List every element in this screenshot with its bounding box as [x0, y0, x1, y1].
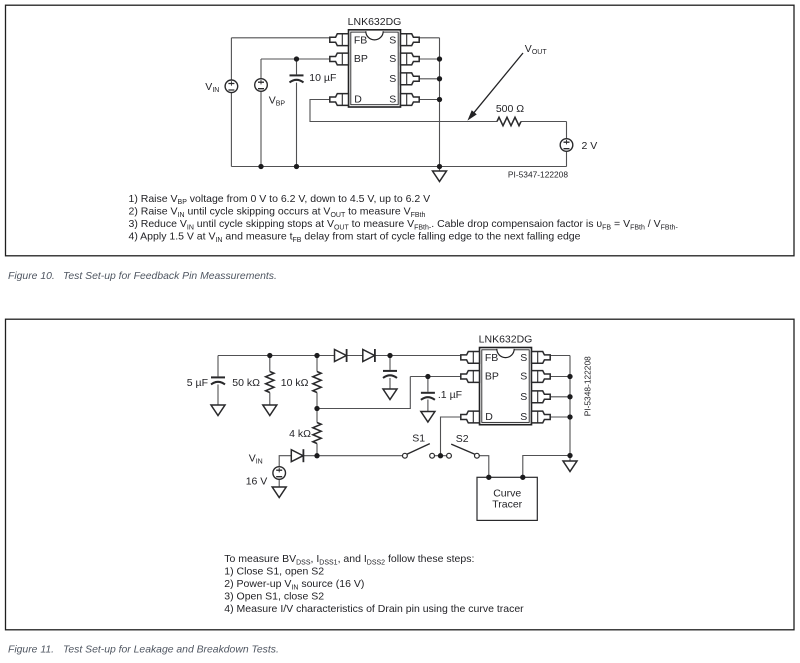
diode D1 [335, 349, 347, 362]
figure 11 border frame [6, 319, 795, 630]
wire 2V source lower lead [566, 151, 568, 166]
svg-text:.1 µF: .1 µF [438, 389, 462, 401]
package notch fig11 [497, 349, 514, 358]
svg-text:BP: BP [354, 53, 368, 65]
svg-text:BP: BP [485, 371, 499, 383]
wire top rail segment 3 [375, 355, 461, 357]
pin BP left fig11 [461, 371, 480, 383]
diode D2 [363, 349, 375, 362]
resistor 4k [313, 423, 321, 444]
pin S right 2 fig11 [532, 371, 551, 383]
wire 01uF top lead [427, 377, 429, 392]
svg-text:S: S [520, 371, 527, 383]
wire output line right of resistor [521, 121, 567, 123]
junction S rail pin2 fig11 [567, 374, 572, 379]
junction S rail bottom fig11 [567, 453, 572, 458]
svg-text:10 kΩ: 10 kΩ [281, 377, 309, 389]
wire 5uF top lead [217, 356, 219, 377]
junction D-switch node [438, 453, 443, 458]
svg-text:Figure 11.: Figure 11. [8, 645, 54, 656]
capacitor C1 10uF [290, 75, 304, 82]
svg-text:LNK632DG: LNK632DG [348, 16, 402, 28]
junction BP 01uF [425, 374, 430, 379]
wire diode to S1 [303, 455, 402, 457]
wire cap3 bottom lead [389, 378, 391, 389]
svg-text:2) Power-up VIN source (16 V): 2) Power-up VIN source (16 V) [224, 578, 364, 591]
switch S1 [403, 444, 435, 459]
wire S pin 3 to rail fig11 [550, 396, 570, 398]
node VOUT arrow [468, 53, 523, 120]
resistor R1 500 ohm [497, 117, 521, 125]
wire 10uF bottom lead [296, 83, 298, 167]
svg-text:VIN: VIN [249, 452, 263, 465]
wire 01uF bottom lead [427, 400, 429, 412]
wire 4k bottom lead [316, 444, 318, 456]
svg-text:VBP: VBP [269, 94, 286, 107]
pin S right 1 fig11 [532, 352, 551, 364]
svg-text:S1: S1 [412, 433, 425, 445]
wire curve tracer to ground rail [523, 456, 570, 478]
svg-text:4) Apply 1.5 V at VIN and meas: 4) Apply 1.5 V at VIN and measure tFB de… [129, 231, 581, 244]
pin D left fig11 [461, 411, 480, 423]
ground C3 [383, 389, 397, 400]
wire S1 to S2 common [434, 455, 447, 457]
wire BP drop to 10k node [317, 377, 410, 409]
wire BP rail [410, 376, 461, 378]
wire S pin 4 to rail fig11 [550, 416, 570, 418]
diode D3 [291, 449, 303, 462]
wire BP rail VBP to BP pin [261, 58, 330, 60]
wire ground stem [439, 167, 441, 172]
svg-text:S: S [520, 411, 527, 423]
resistor 50k [266, 372, 274, 393]
wire S pin 1 to rail [420, 37, 440, 39]
junction S rail bottom [437, 164, 442, 169]
svg-text:4 kΩ: 4 kΩ [289, 428, 311, 440]
source VBP [255, 79, 268, 92]
junction 4k VIN rail [314, 453, 319, 458]
svg-text:S: S [389, 94, 396, 106]
pin D left 4 [330, 94, 349, 106]
figure 10 border frame [6, 5, 795, 256]
svg-text:3) Reduce VIN until cycle skip: 3) Reduce VIN until cycle skipping stops… [129, 218, 679, 231]
ground 01uF [421, 412, 435, 423]
wire VIN vertical upper [230, 38, 232, 80]
pin S right 4 fig11 [532, 411, 551, 423]
wire D pin to switch node [441, 417, 461, 456]
wire VIN source top lead [279, 456, 291, 467]
wire S pin 2 to rail fig11 [550, 376, 570, 378]
junction S rail pin3 [437, 76, 442, 81]
svg-text:To measure BVDSS, IDSS1, and I: To measure BVDSS, IDSS1, and IDSS2 follo… [224, 553, 474, 566]
wire S2 to curve tracer [479, 456, 489, 478]
junction curve tracer left [486, 475, 491, 480]
svg-text:10 µF: 10 µF [309, 72, 336, 84]
wire 10k top lead [316, 356, 318, 372]
svg-text:LNK632DG: LNK632DG [479, 334, 533, 346]
svg-text:1) Close S1, open S2: 1) Close S1, open S2 [224, 566, 324, 578]
svg-text:VIN: VIN [205, 81, 219, 94]
ground 50k [263, 405, 277, 416]
wire 4k top lead [316, 409, 318, 423]
svg-text:Test Set-up for Leakage and Br: Test Set-up for Leakage and Breakdown Te… [63, 645, 279, 656]
wire top rail segment 1 [218, 355, 335, 357]
wire S pin 1 to rail fig11 [550, 355, 570, 357]
svg-text:3) Open S1, close S2: 3) Open S1, close S2 [224, 591, 324, 603]
wire VIN vertical lower [230, 93, 232, 167]
wire 10uF top lead [296, 59, 298, 74]
svg-text:5 µF: 5 µF [187, 377, 208, 389]
wire 10k bottom lead [316, 393, 318, 409]
wire 50k bottom lead [269, 393, 271, 406]
wire 5uF bottom lead [217, 385, 219, 406]
pin S right 4 [401, 94, 420, 106]
ground S rail fig11 [563, 461, 577, 472]
svg-text:Test Set-up for Feedback Pin M: Test Set-up for Feedback Pin Meassuremen… [63, 271, 277, 282]
svg-text:2) Raise VIN until cycle skipp: 2) Raise VIN until cycle skipping occurs… [129, 205, 426, 218]
source VIN [225, 80, 238, 93]
svg-text:S: S [520, 391, 527, 403]
pin FB left 1 [330, 34, 349, 46]
wire S pin 3 to rail [420, 78, 440, 80]
curve tracer box [477, 477, 537, 520]
junction cap bottom [294, 164, 299, 169]
source 2V [560, 139, 573, 152]
wire ground stem fig11 [569, 456, 571, 462]
wire cap3 top lead [389, 356, 391, 370]
svg-text:S: S [389, 73, 396, 85]
ground [433, 171, 447, 182]
source VIN 16V [273, 467, 286, 480]
wire bottom rail [231, 166, 566, 168]
wire S pin 2 to rail [420, 58, 440, 60]
wire S rail vertical fig11 [569, 356, 571, 456]
op IC U2 LNK632DG package fig11 [480, 348, 532, 425]
junction VBP bottom [258, 164, 263, 169]
wire 2V source upper lead [566, 122, 568, 139]
svg-text:16 V: 16 V [246, 476, 268, 488]
junction S rail pin4 [437, 97, 442, 102]
svg-text:4) Measure I/V characteristics: 4) Measure I/V characteristics of Drain … [224, 603, 524, 615]
wire VBP vertical upper [260, 59, 262, 79]
junction top rail 10k [314, 353, 319, 358]
wire S pin 4 to rail [420, 99, 440, 101]
wire S rail vertical [439, 38, 441, 167]
svg-text:50 kΩ: 50 kΩ [232, 377, 260, 389]
pin S right 3 [401, 73, 420, 85]
capacitor 01uF [421, 393, 435, 400]
wire VBP vertical lower [260, 91, 262, 166]
svg-text:D: D [354, 94, 362, 106]
junction S rail pin3 fig11 [567, 394, 572, 399]
wire top rail segment 2 [347, 355, 363, 357]
package notch [366, 31, 383, 40]
svg-text:S2: S2 [456, 433, 469, 445]
wire 50k top lead [269, 356, 271, 372]
capacitor 5uF [211, 377, 225, 384]
capacitor C3 [383, 371, 397, 378]
svg-text:S: S [389, 35, 396, 47]
svg-text:FB: FB [354, 35, 367, 47]
svg-text:S: S [520, 352, 527, 364]
svg-text:Tracer: Tracer [492, 498, 522, 510]
pin S right 3 fig11 [532, 391, 551, 403]
pin FB left fig11 [461, 352, 480, 364]
junction 10k-4k node [314, 406, 319, 411]
svg-text:FB: FB [485, 352, 498, 364]
svg-text:Figure 10.: Figure 10. [8, 271, 55, 282]
ground 5uF [211, 405, 225, 416]
switch S2 [447, 444, 480, 458]
svg-text:2 V: 2 V [582, 140, 598, 152]
wire VIN source bottom lead [278, 479, 280, 487]
wire D pin loop to output line [310, 100, 497, 122]
svg-text:D: D [485, 411, 493, 423]
junction S rail pin4 fig11 [567, 414, 572, 419]
svg-text:PI-5348-122208: PI-5348-122208 [583, 356, 593, 416]
pin S right 2 [401, 53, 420, 65]
pin S right 1 [401, 34, 420, 46]
junction S rail pin2 [437, 56, 442, 61]
pin BP left 2 [330, 53, 349, 65]
resistor 10k [313, 372, 321, 393]
ground VIN [272, 487, 286, 498]
junction top rail 50k [267, 353, 272, 358]
svg-text:1) Raise VBP voltage from 0 V: 1) Raise VBP voltage from 0 V to 6.2 V, … [129, 193, 431, 206]
junction top rail C3 [387, 353, 392, 358]
junction curve tracer right [520, 475, 525, 480]
svg-text:500 Ω: 500 Ω [496, 103, 524, 115]
svg-text:VOUT: VOUT [525, 43, 548, 56]
op IC U1 LNK632DG package [349, 30, 401, 107]
svg-text:PI-5347-122208: PI-5347-122208 [508, 170, 568, 180]
wire top rail VIN to FB pin [231, 37, 329, 39]
junction BP-cap [294, 56, 299, 61]
svg-text:S: S [389, 53, 396, 65]
